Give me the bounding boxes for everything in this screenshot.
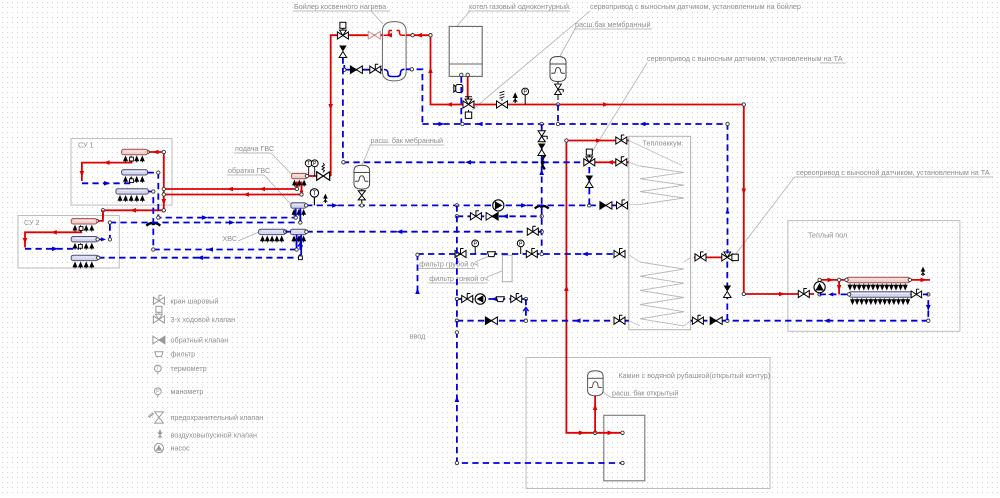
flow arrow [564, 285, 569, 291]
ball valve [470, 211, 481, 220]
svg-text:P: P [156, 389, 160, 395]
котел газовый box [449, 26, 482, 76]
flow arrow [539, 169, 544, 175]
node [416, 253, 419, 256]
Теплоаккум tank box [629, 136, 691, 329]
safety valve ГВС with diagonal spring [317, 172, 330, 180]
ball valve [527, 226, 538, 235]
legend предохранительный клапан [148, 412, 163, 423]
flow arrow [725, 209, 729, 214]
svg-text:Камин с водяной рубашкой(откры: Камин с водяной рубашкой(открытый контур… [619, 371, 771, 380]
wire red: котел supply down to 3-way [467, 77, 469, 100]
air vent [323, 194, 328, 203]
flow arrow [104, 160, 110, 165]
wire blue: tank bottom right to return main [406, 69, 422, 124]
check valve vertical [586, 176, 594, 188]
wire blue: ХВС manifolds row y231.7 [306, 231, 541, 233]
svg-text:обратка ГВС: обратка ГВС [228, 166, 270, 175]
boiler tank internal red dip tubes [384, 31, 406, 36]
flow arrow [243, 192, 249, 197]
svg-text:P: P [313, 161, 317, 167]
ball valve [616, 157, 627, 166]
pump ГВС circulation [493, 200, 504, 211]
node [360, 204, 363, 207]
flow arrow [607, 160, 613, 165]
svg-text:P: P [519, 241, 523, 247]
svg-text:Теплый пол: Теплый пол [808, 231, 847, 240]
фильтр грубой [487, 252, 496, 257]
wire blue: ХВС riser x541.7 [541, 124, 543, 255]
node [455, 297, 458, 300]
svg-text:обратный клапан: обратный клапан [171, 336, 229, 345]
flow arrow [415, 288, 420, 294]
flow arrow [455, 396, 460, 402]
M3 ticks [118, 196, 144, 202]
ball valve теплый пол [798, 289, 809, 298]
wire red: ГВС double lines to manifold stubs [164, 182, 302, 195]
wire blue: boiler tank bottom left [344, 65, 382, 70]
solid stubs обратка/ХВС [296, 209, 302, 255]
СУ2 manifold M3 [71, 255, 98, 260]
расш. бак открытый [588, 371, 604, 396]
flow arrow [23, 238, 28, 244]
фильтр on котел line [454, 85, 463, 93]
ball valve [455, 249, 466, 258]
chevron up [523, 308, 528, 312]
flow arrow [207, 247, 213, 252]
legend воздуховыпускной клапан [158, 429, 163, 438]
valve under tank 1 [557, 82, 559, 101]
check valve vertical [724, 286, 732, 298]
ТА upper coil connectors [629, 141, 682, 205]
legend 3-х ходовой клапан [153, 306, 164, 323]
ТА upper coil [640, 166, 684, 204]
svg-text:Бойлер косвенного нагрева: Бойлер косвенного нагрева [294, 2, 386, 11]
check valve on riser [538, 144, 546, 156]
air vent теплый пол [921, 267, 926, 276]
check valve right [710, 317, 722, 325]
Y reducer symbol [298, 240, 303, 247]
ХВС1 ticks [261, 236, 284, 242]
node [455, 319, 458, 322]
check valve [350, 66, 362, 74]
air vent on main line [513, 92, 518, 103]
ball valve before ТА [617, 200, 628, 209]
3-way servo ТА [584, 149, 595, 166]
flow arrow [608, 431, 614, 436]
node [565, 139, 568, 142]
flow arrow [828, 278, 834, 283]
wire red: открытый бак stub [594, 396, 596, 433]
node [342, 161, 345, 164]
ТП manifold return [849, 292, 912, 298]
подача ГВС manifold pink [291, 173, 307, 178]
flow arrow [227, 187, 233, 192]
M2 ticks [124, 177, 145, 183]
flow arrow [396, 229, 402, 234]
hop vertical on riser x541.7 [542, 155, 545, 169]
M1 ticks [124, 156, 145, 162]
svg-text:фильтр: фильтр [171, 350, 196, 359]
flow arrow [575, 318, 581, 323]
wire blue: СУ2 M2 riser [98, 210, 301, 239]
membrane tank 2 [354, 165, 370, 189]
flow arrow [521, 203, 527, 208]
wire blue: средний стояк x456.9 to камин [457, 205, 621, 463]
svg-text:ввод: ввод [410, 332, 426, 341]
ball valve right [692, 315, 703, 324]
ball valve on riser [538, 131, 547, 142]
node [162, 187, 165, 190]
svg-text:расш. бак открытый: расш. бак открытый [612, 389, 678, 398]
svg-text:СУ 1: СУ 1 [78, 141, 94, 150]
boiler косвенного нагрева tank [382, 22, 406, 81]
hop on y222.5 over x153.3 [146, 223, 160, 226]
stub box СУ1-M2 [130, 179, 134, 183]
flow arrow [386, 33, 392, 38]
flow arrow [52, 247, 58, 252]
svg-text:манометр: манометр [171, 387, 204, 396]
flow arrow [742, 189, 747, 195]
zone box Теплый пол [788, 221, 960, 332]
фильтр [496, 297, 505, 302]
flow arrow [153, 150, 159, 155]
svg-text:воздуховыпускной клапан: воздуховыпускной клапан [171, 431, 258, 440]
wire blue: membrane tank1 to return [557, 105, 559, 125]
node [108, 238, 111, 241]
wire blue: ввод riser [417, 254, 419, 296]
M3 ticks [73, 262, 94, 268]
node [152, 190, 155, 193]
3-way valve servo бойлер (tank top) [337, 22, 348, 39]
flow arrow [197, 255, 203, 260]
wire red: СУ1 internal loop [82, 159, 131, 182]
wire blue: main return line y124 [422, 124, 727, 254]
stub arrow [300, 188, 304, 193]
wire red: теплый пол supply [820, 280, 930, 295]
pump подпитки [475, 294, 485, 304]
membrane expansion tank 1 [550, 57, 566, 82]
СУ1 manifold M1 pink [122, 149, 148, 154]
ХВС manifold 2 [291, 229, 307, 234]
svg-text:подача ГВС: подача ГВС [235, 144, 274, 153]
svg-text:фильтр тонкой оч.: фильтр тонкой оч. [429, 274, 490, 283]
обратка ticks [292, 210, 305, 216]
flow arrow [328, 104, 333, 110]
wire blue: котел return down [460, 77, 462, 125]
ball valve [614, 315, 625, 324]
hop on line y205 over riser [535, 206, 549, 209]
ТП return ticks [851, 298, 910, 304]
СУ2 manifold M1 pink [71, 219, 97, 224]
flow arrow [259, 187, 265, 192]
flow arrow [491, 297, 497, 302]
3-way servo ТА right [722, 252, 733, 261]
flow arrow [640, 122, 646, 127]
wire blue: servo ТА right branch down [726, 262, 728, 321]
wire red: tank top left to 3-way ГВС riser [329, 35, 382, 176]
manometer on main line [522, 88, 529, 104]
node [429, 34, 432, 37]
flow arrow [582, 252, 588, 257]
flow arrow [51, 230, 57, 235]
ball valve [511, 294, 522, 303]
node [95, 219, 98, 222]
valve under tank 2 [361, 189, 363, 203]
камин топка box [604, 415, 645, 481]
zone box СУ 2 [18, 216, 119, 269]
node [343, 68, 346, 71]
node [97, 256, 100, 259]
wire red: boiler tank top to main corner [406, 35, 464, 104]
flow arrow [202, 215, 208, 220]
check valve [485, 317, 497, 325]
svg-text:сервопривод с выносным датчико: сервопривод с выносным датчиком, установ… [647, 54, 843, 63]
check valve before ТА [600, 202, 612, 210]
legend насос [154, 444, 163, 453]
ball valve [370, 64, 381, 73]
zone box Камин [526, 358, 770, 489]
node [818, 278, 821, 281]
wire red: ТА right to servo 3-way [694, 256, 722, 258]
wire blue: ввод row y254 filters [418, 253, 627, 255]
node [410, 68, 413, 71]
node котел ports [460, 73, 463, 76]
flow arrow [130, 208, 136, 213]
СУ1 manifold M3 [116, 189, 148, 194]
safety valve on main line [497, 101, 508, 108]
svg-text:насос: насос [171, 444, 191, 453]
svg-text:расш.бак мембранный: расш.бак мембранный [575, 20, 650, 29]
wire blue: СУ2 M3 row y257.7 [98, 236, 300, 258]
check valve under 3-way [339, 46, 347, 58]
flow arrow [428, 67, 433, 73]
wire blue: обратка ГВС line y205 to ТА [306, 204, 626, 206]
ХВС manifold 1 [259, 229, 286, 234]
svg-text:T: T [313, 191, 317, 197]
legend термометр [154, 365, 161, 374]
pump теплый пол [814, 282, 825, 293]
svg-text:Теплоаккум.: Теплоаккум. [643, 139, 684, 148]
node [455, 331, 458, 334]
svg-text:P: P [523, 89, 527, 95]
safety bowtie under tank2 [358, 191, 365, 200]
flow arrow [779, 292, 785, 297]
flow arrow [828, 292, 833, 296]
wire blue: СУ1 loop bottom [82, 182, 131, 184]
svg-text:ХВС: ХВС [223, 234, 238, 243]
check valve light on tank inlet [368, 31, 380, 39]
flow arrow [603, 102, 609, 107]
thermometer Т1 [310, 189, 318, 206]
ball valve [526, 249, 537, 258]
wire blue: x589 3-way branch down [588, 167, 590, 205]
node [411, 34, 414, 37]
M1 ticks [73, 226, 94, 232]
stub square cap [299, 256, 303, 260]
flow arrow [416, 33, 422, 38]
svg-text:кран шаровый: кран шаровый [171, 297, 219, 306]
manometer 2 [517, 240, 524, 254]
svg-text:сервопривод с выносной датчико: сервопривод с выносной датчиком, установ… [796, 168, 990, 177]
legend фильтр [154, 352, 163, 357]
ball valve before ТА low [614, 249, 625, 258]
ТА lower coil [640, 262, 684, 326]
wire red: ГВС подача riser to manifold [307, 175, 318, 177]
node [556, 103, 559, 106]
svg-text:P: P [473, 241, 477, 247]
wire blue: mixing riser x343 down to y162 and to 3-way ТА [343, 58, 585, 163]
check valve [486, 213, 498, 221]
ТП manifold supply pink [847, 277, 910, 283]
flow arrow [921, 278, 927, 283]
flow arrow [162, 199, 167, 205]
fine filter vessel [502, 255, 512, 282]
flow arrow [824, 318, 830, 323]
обратка ГВС manifold [291, 203, 306, 208]
ТП supply ticks [848, 284, 907, 290]
ХВС2 ticks [292, 236, 305, 242]
svg-text:сервопривод с выносным датчико: сервопривод с выносным датчиком, установ… [590, 2, 801, 11]
wire red: 3-way ТА to tank [594, 161, 629, 163]
node [540, 215, 543, 218]
wire blue: ХВС manifold link [285, 231, 290, 233]
wire red: СУ1 manifold M1 feed [103, 152, 164, 219]
svg-text:СУ 2: СУ 2 [24, 218, 40, 227]
flow arrow [104, 181, 110, 186]
flow arrow [332, 203, 338, 208]
wire blue: СУ2 loop bottom [25, 248, 79, 250]
manometer [472, 240, 479, 254]
wire blue: подпитка row y299 [457, 298, 526, 300]
node [146, 150, 149, 153]
thermometer манометр pair у подачи [305, 160, 312, 167]
flow arrow [229, 220, 235, 225]
node ТП manifold ends [845, 278, 848, 281]
svg-text:предохранительный клапан: предохранительный клапан [171, 413, 264, 422]
svg-text:котел газовый одноконтурный.: котел газовый одноконтурный. [469, 2, 571, 11]
node [461, 122, 464, 125]
legend кран шаровый [153, 295, 164, 304]
svg-text:термометр: термометр [171, 364, 207, 373]
flow arrow [596, 138, 602, 143]
wire blue: СУ1 M3 riser down y249.5 [148, 192, 296, 250]
СУ1 manifold M2 [122, 170, 148, 175]
ball valve ТП return [911, 289, 921, 298]
wire blue: подпитка row y216.3 [457, 215, 542, 217]
svg-text:фильтр грубой оч.: фильтр грубой оч. [419, 260, 480, 269]
flow arrow [477, 122, 483, 127]
wire blue: row y320.7 long return [457, 294, 928, 320]
ball valve [695, 252, 706, 261]
wire blue: ТП return to pump [820, 293, 929, 295]
3-way valve servo на бойлер (main line) [463, 99, 474, 108]
flow arrow [926, 305, 931, 311]
stub box СУ1-M1 [130, 157, 134, 161]
stub box СУ2-M1 [79, 227, 83, 231]
flow arrow [502, 214, 508, 219]
wire red: ТА supply down to камин [566, 141, 628, 433]
ball valve ТА top [616, 135, 627, 144]
M2 ticks [73, 244, 94, 250]
ТА lower coil connectors [629, 255, 691, 326]
node [742, 103, 745, 106]
wire red: main supply line to ТА zone [473, 105, 814, 295]
wire blue: СУ1 M2 riser [148, 173, 296, 218]
zone box СУ 1 [71, 139, 172, 206]
flow arrow [446, 102, 452, 107]
legend манометр [154, 388, 161, 397]
flow arrow [80, 171, 85, 177]
wire red: СУ2 internal loop [25, 230, 81, 248]
wire red: СУ2 manifold M1 feed corner [97, 210, 103, 221]
подача ticks [293, 181, 306, 187]
flow arrow [837, 285, 842, 291]
ball valve [462, 294, 473, 303]
flow arrow [465, 160, 471, 165]
flow arrow [101, 237, 106, 241]
node [157, 171, 160, 174]
flow arrow [439, 122, 445, 127]
stub box СУ2-M2 [79, 244, 83, 248]
stub arrow [295, 183, 299, 188]
СУ2 manifold M2 [71, 237, 97, 242]
node [455, 215, 458, 218]
svg-text:расш. бак мебранный: расш. бак мебранный [371, 136, 444, 145]
flow arrow [593, 404, 598, 410]
node manifold ends [305, 174, 308, 177]
legend обратный клапан [153, 336, 165, 344]
flow arrow [579, 431, 585, 436]
svg-text:3-х ходовой клапан: 3-х ходовой клапан [171, 315, 236, 324]
boiler tank internal blue tubes [384, 69, 405, 76]
